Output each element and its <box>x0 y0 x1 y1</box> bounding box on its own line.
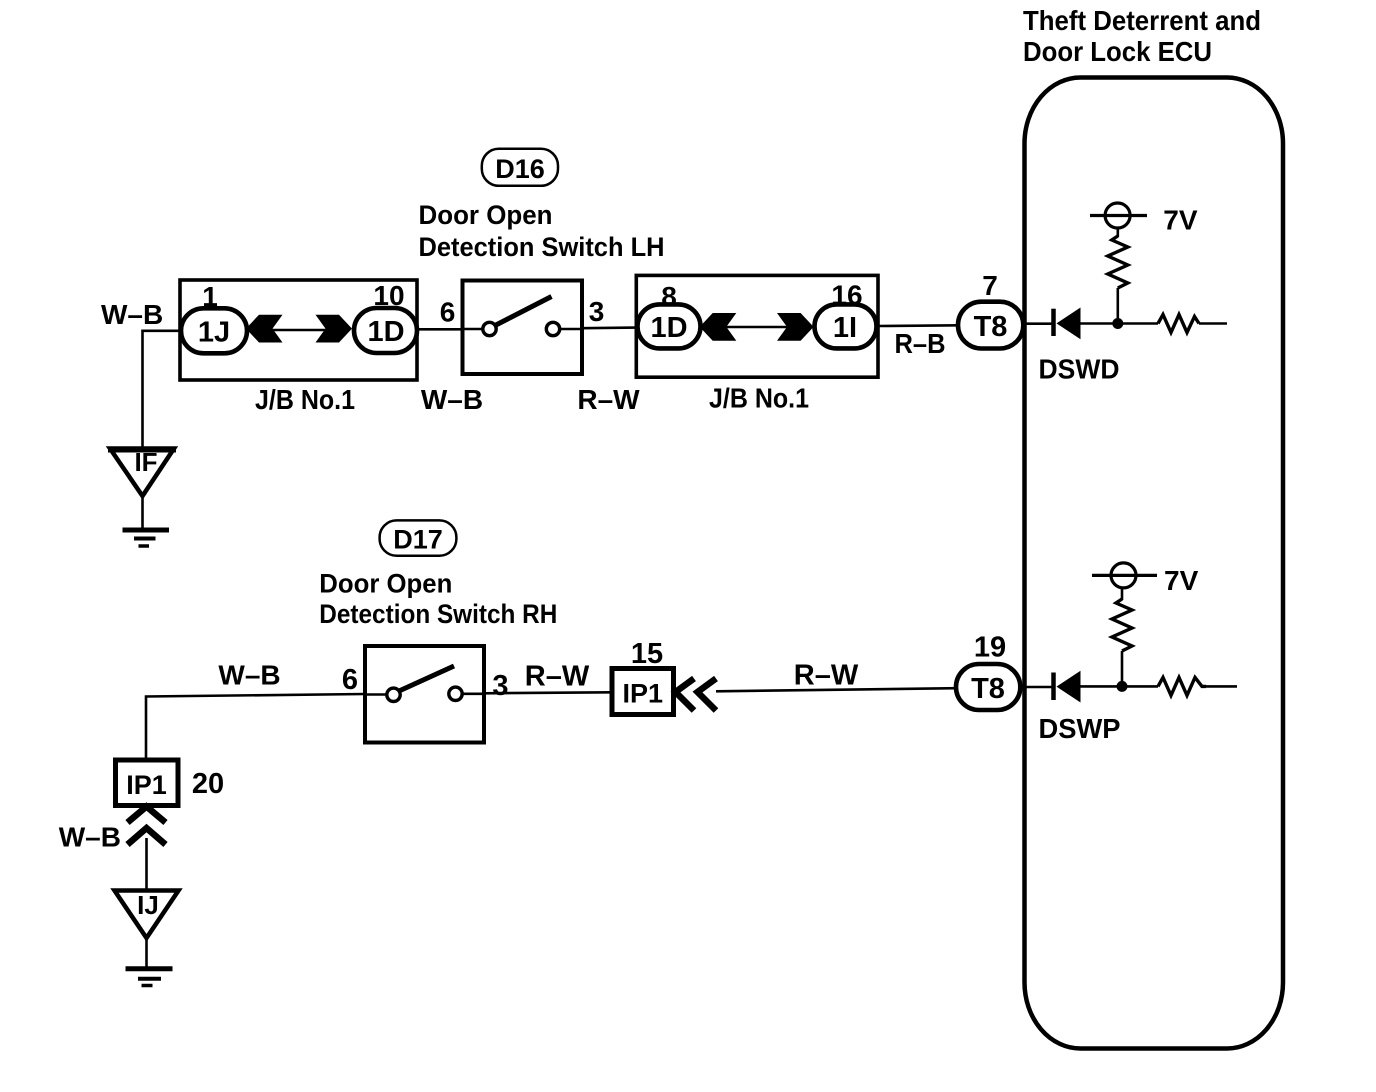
wire switch LH to J/B No.1 (second) <box>582 326 637 329</box>
ECU box Theft Deterrent and Door Lock ECU <box>1025 78 1284 1049</box>
diode DSWD (cathode bar) <box>1051 309 1056 336</box>
resistor pull-up to 7V (top) <box>1108 236 1128 288</box>
ground triangle IF <box>108 447 176 496</box>
wire resistor to 7V source (top) <box>1117 227 1120 237</box>
pin number 3 (switch RH) <box>492 670 508 702</box>
svg-text:T8: T8 <box>974 311 1008 343</box>
pin number 15 <box>631 638 663 670</box>
svg-text:R–B: R–B <box>895 328 946 359</box>
svg-text:Detection Switch RH: Detection Switch RH <box>319 599 557 629</box>
label J/B No.1 (first) <box>255 384 355 415</box>
svg-text:3: 3 <box>589 296 605 327</box>
svg-text:IF: IF <box>134 447 157 477</box>
pin number 10 <box>373 280 404 311</box>
label 7V (top) <box>1163 205 1198 236</box>
resistor series DSWD (top) <box>1158 315 1199 333</box>
label R-W (bottom left) <box>525 661 590 693</box>
junction dot (bottom row) <box>1117 681 1128 692</box>
svg-text:6: 6 <box>440 297 456 328</box>
label W-B (bottom ground path) <box>59 822 121 853</box>
connector T8 (pin 19) <box>956 664 1020 710</box>
connector code D17 <box>380 520 457 555</box>
svg-text:7: 7 <box>982 270 998 301</box>
svg-text:R–W: R–W <box>794 660 859 692</box>
svg-text:IJ: IJ <box>137 890 159 920</box>
wire J/B No.1 to switch (pin 6) <box>417 328 463 331</box>
svg-text:Theft Deterrent and: Theft Deterrent and <box>1023 5 1261 36</box>
diode DSWD (triangle) <box>1057 308 1081 340</box>
svg-text:1J: 1J <box>198 317 230 349</box>
wire diode to resistor (bottom row) <box>1080 685 1158 688</box>
svg-text:6: 6 <box>342 664 358 696</box>
wire resistor to comparator (top) <box>1199 322 1227 325</box>
ground symbol (bottom left) <box>126 969 173 986</box>
label R-W (bottom middle) <box>794 660 859 692</box>
junction block J/B No.1 (first) <box>180 280 417 380</box>
svg-text:IP1: IP1 <box>126 770 167 800</box>
svg-text:1: 1 <box>202 281 218 312</box>
resistor series DSWP (bottom) <box>1158 677 1206 695</box>
label DSWP <box>1039 713 1121 744</box>
ground triangle IJ <box>115 890 179 938</box>
junction block J/B No.1 (second) <box>636 275 878 377</box>
label: Door Open Detection Switch LH <box>419 200 665 262</box>
label R-W (below wire) <box>577 384 640 415</box>
label DSWD <box>1039 354 1120 385</box>
chevron arrows into IP1 (pointing up) <box>128 807 166 845</box>
svg-text:Door Open: Door Open <box>419 200 553 230</box>
svg-text:8: 8 <box>661 281 677 312</box>
label: Door Open Detection Switch RH <box>319 568 557 629</box>
arrow right (J/B No.1 second) <box>777 313 814 341</box>
svg-text:Door Lock ECU: Door Lock ECU <box>1023 36 1212 67</box>
svg-text:W–B: W–B <box>59 822 121 853</box>
switch RH contacts and lever <box>365 666 484 702</box>
pin number 7 <box>982 270 998 301</box>
pin number 6 (switch RH) <box>342 664 358 696</box>
label W-B (below wire) <box>421 384 483 415</box>
wire junction to pull-up resistor (bottom) <box>1121 651 1124 686</box>
wire chevrons to IJ triangle <box>145 838 148 890</box>
svg-text:W–B: W–B <box>101 299 163 330</box>
svg-text:15: 15 <box>631 638 663 670</box>
wire T8 into ECU (bottom) <box>1020 686 1051 689</box>
connector IP1 (pin 20) <box>116 760 179 806</box>
diode DSWP (triangle) <box>1057 671 1081 703</box>
switch LH contacts and lever <box>463 297 583 336</box>
wire switch RH to IP1 (R-W) <box>484 692 612 693</box>
wire IP1 to switch RH <box>146 694 365 760</box>
wire T8 into ECU <box>1023 322 1051 325</box>
svg-text:20: 20 <box>192 768 224 800</box>
pin number 8 <box>661 281 677 312</box>
svg-text:T8: T8 <box>971 673 1005 705</box>
svg-text:10: 10 <box>373 280 404 311</box>
wire IP1 to T8 (R-W, bottom) <box>716 688 957 691</box>
resistor pull-up to 7V (bottom) <box>1112 599 1132 651</box>
pin number 19 <box>974 632 1006 664</box>
wire resistor to comparator (bottom) <box>1206 685 1237 688</box>
junction dot (top row) <box>1112 318 1123 329</box>
ground symbol (top left) <box>123 530 170 546</box>
pin number 16 <box>831 280 862 311</box>
svg-text:3: 3 <box>492 670 508 702</box>
arrow left (J/B No.1 second) <box>700 313 737 341</box>
diode DSWP (cathode bar) <box>1051 673 1056 701</box>
svg-text:7V: 7V <box>1164 565 1199 596</box>
svg-text:1I: 1I <box>833 312 857 344</box>
wire between arrows (J/B No.1 second) <box>724 326 790 329</box>
arrow left (J/B No.1 first) <box>246 315 283 343</box>
pin number 20 <box>192 768 224 800</box>
connector 1D (pin 10) <box>354 308 417 353</box>
pin number 1 <box>202 281 218 312</box>
connector 1D (pin 8) <box>638 304 701 348</box>
svg-text:W–B: W–B <box>218 660 280 691</box>
svg-text:Door Open: Door Open <box>319 568 452 598</box>
connector 1I (pin 16) <box>815 304 877 348</box>
arrow right (J/B No.1 first) <box>316 315 353 343</box>
connector T8 (pin 7) <box>958 302 1023 349</box>
label W-B (top left) <box>101 299 163 330</box>
label 7V (bottom) <box>1164 565 1199 596</box>
wire diode to resistor (top row) <box>1079 322 1158 325</box>
svg-text:D17: D17 <box>393 525 443 555</box>
chevron arrows into IP1 <box>676 679 717 711</box>
svg-text:J/B No.1: J/B No.1 <box>709 383 809 414</box>
svg-text:Detection Switch LH: Detection Switch LH <box>419 232 665 262</box>
svg-text:1D: 1D <box>367 316 404 348</box>
pin number 6 (switch LH) <box>440 297 456 328</box>
svg-text:J/B No.1: J/B No.1 <box>255 384 355 415</box>
svg-text:DSWP: DSWP <box>1039 713 1121 744</box>
svg-text:1D: 1D <box>650 312 687 344</box>
power source 7V (bottom) <box>1092 563 1157 588</box>
wire triangle IJ to ground <box>145 938 148 967</box>
label W-B (bottom left wire) <box>218 660 280 691</box>
connector IP1 (pin 15) <box>612 669 674 715</box>
svg-text:7V: 7V <box>1163 205 1198 236</box>
label J/B No.1 (second) <box>709 383 809 414</box>
svg-text:D16: D16 <box>495 154 545 184</box>
switch D17 Door Open Detection Switch RH box <box>365 646 484 743</box>
label: Theft Deterrent and Door Lock ECU <box>1023 5 1261 67</box>
connector code D16 <box>482 149 558 186</box>
switch D16 Door Open Detection Switch LH box <box>463 281 583 375</box>
svg-text:R–W: R–W <box>577 384 640 415</box>
label R-B <box>895 328 946 359</box>
svg-text:IP1: IP1 <box>623 679 664 709</box>
power source 7V (top) <box>1090 203 1147 228</box>
pin number 3 (switch LH) <box>589 296 605 327</box>
svg-text:W–B: W–B <box>421 384 483 415</box>
wire junction to pull-up resistor <box>1117 288 1120 324</box>
wire triangle IF to ground <box>141 496 144 529</box>
svg-text:R–W: R–W <box>525 661 590 693</box>
svg-text:19: 19 <box>974 632 1006 664</box>
wire from ground IF to J/B No.1 pin 1 <box>143 331 182 448</box>
svg-text:16: 16 <box>831 280 862 311</box>
wire between arrows (J/B No.1 first) <box>270 329 330 332</box>
wire resistor to 7V source (bottom) <box>1121 588 1124 600</box>
svg-text:DSWD: DSWD <box>1039 354 1120 385</box>
wire J/B No.1 to T8 (R-B) <box>878 324 959 327</box>
connector 1J <box>181 308 247 353</box>
